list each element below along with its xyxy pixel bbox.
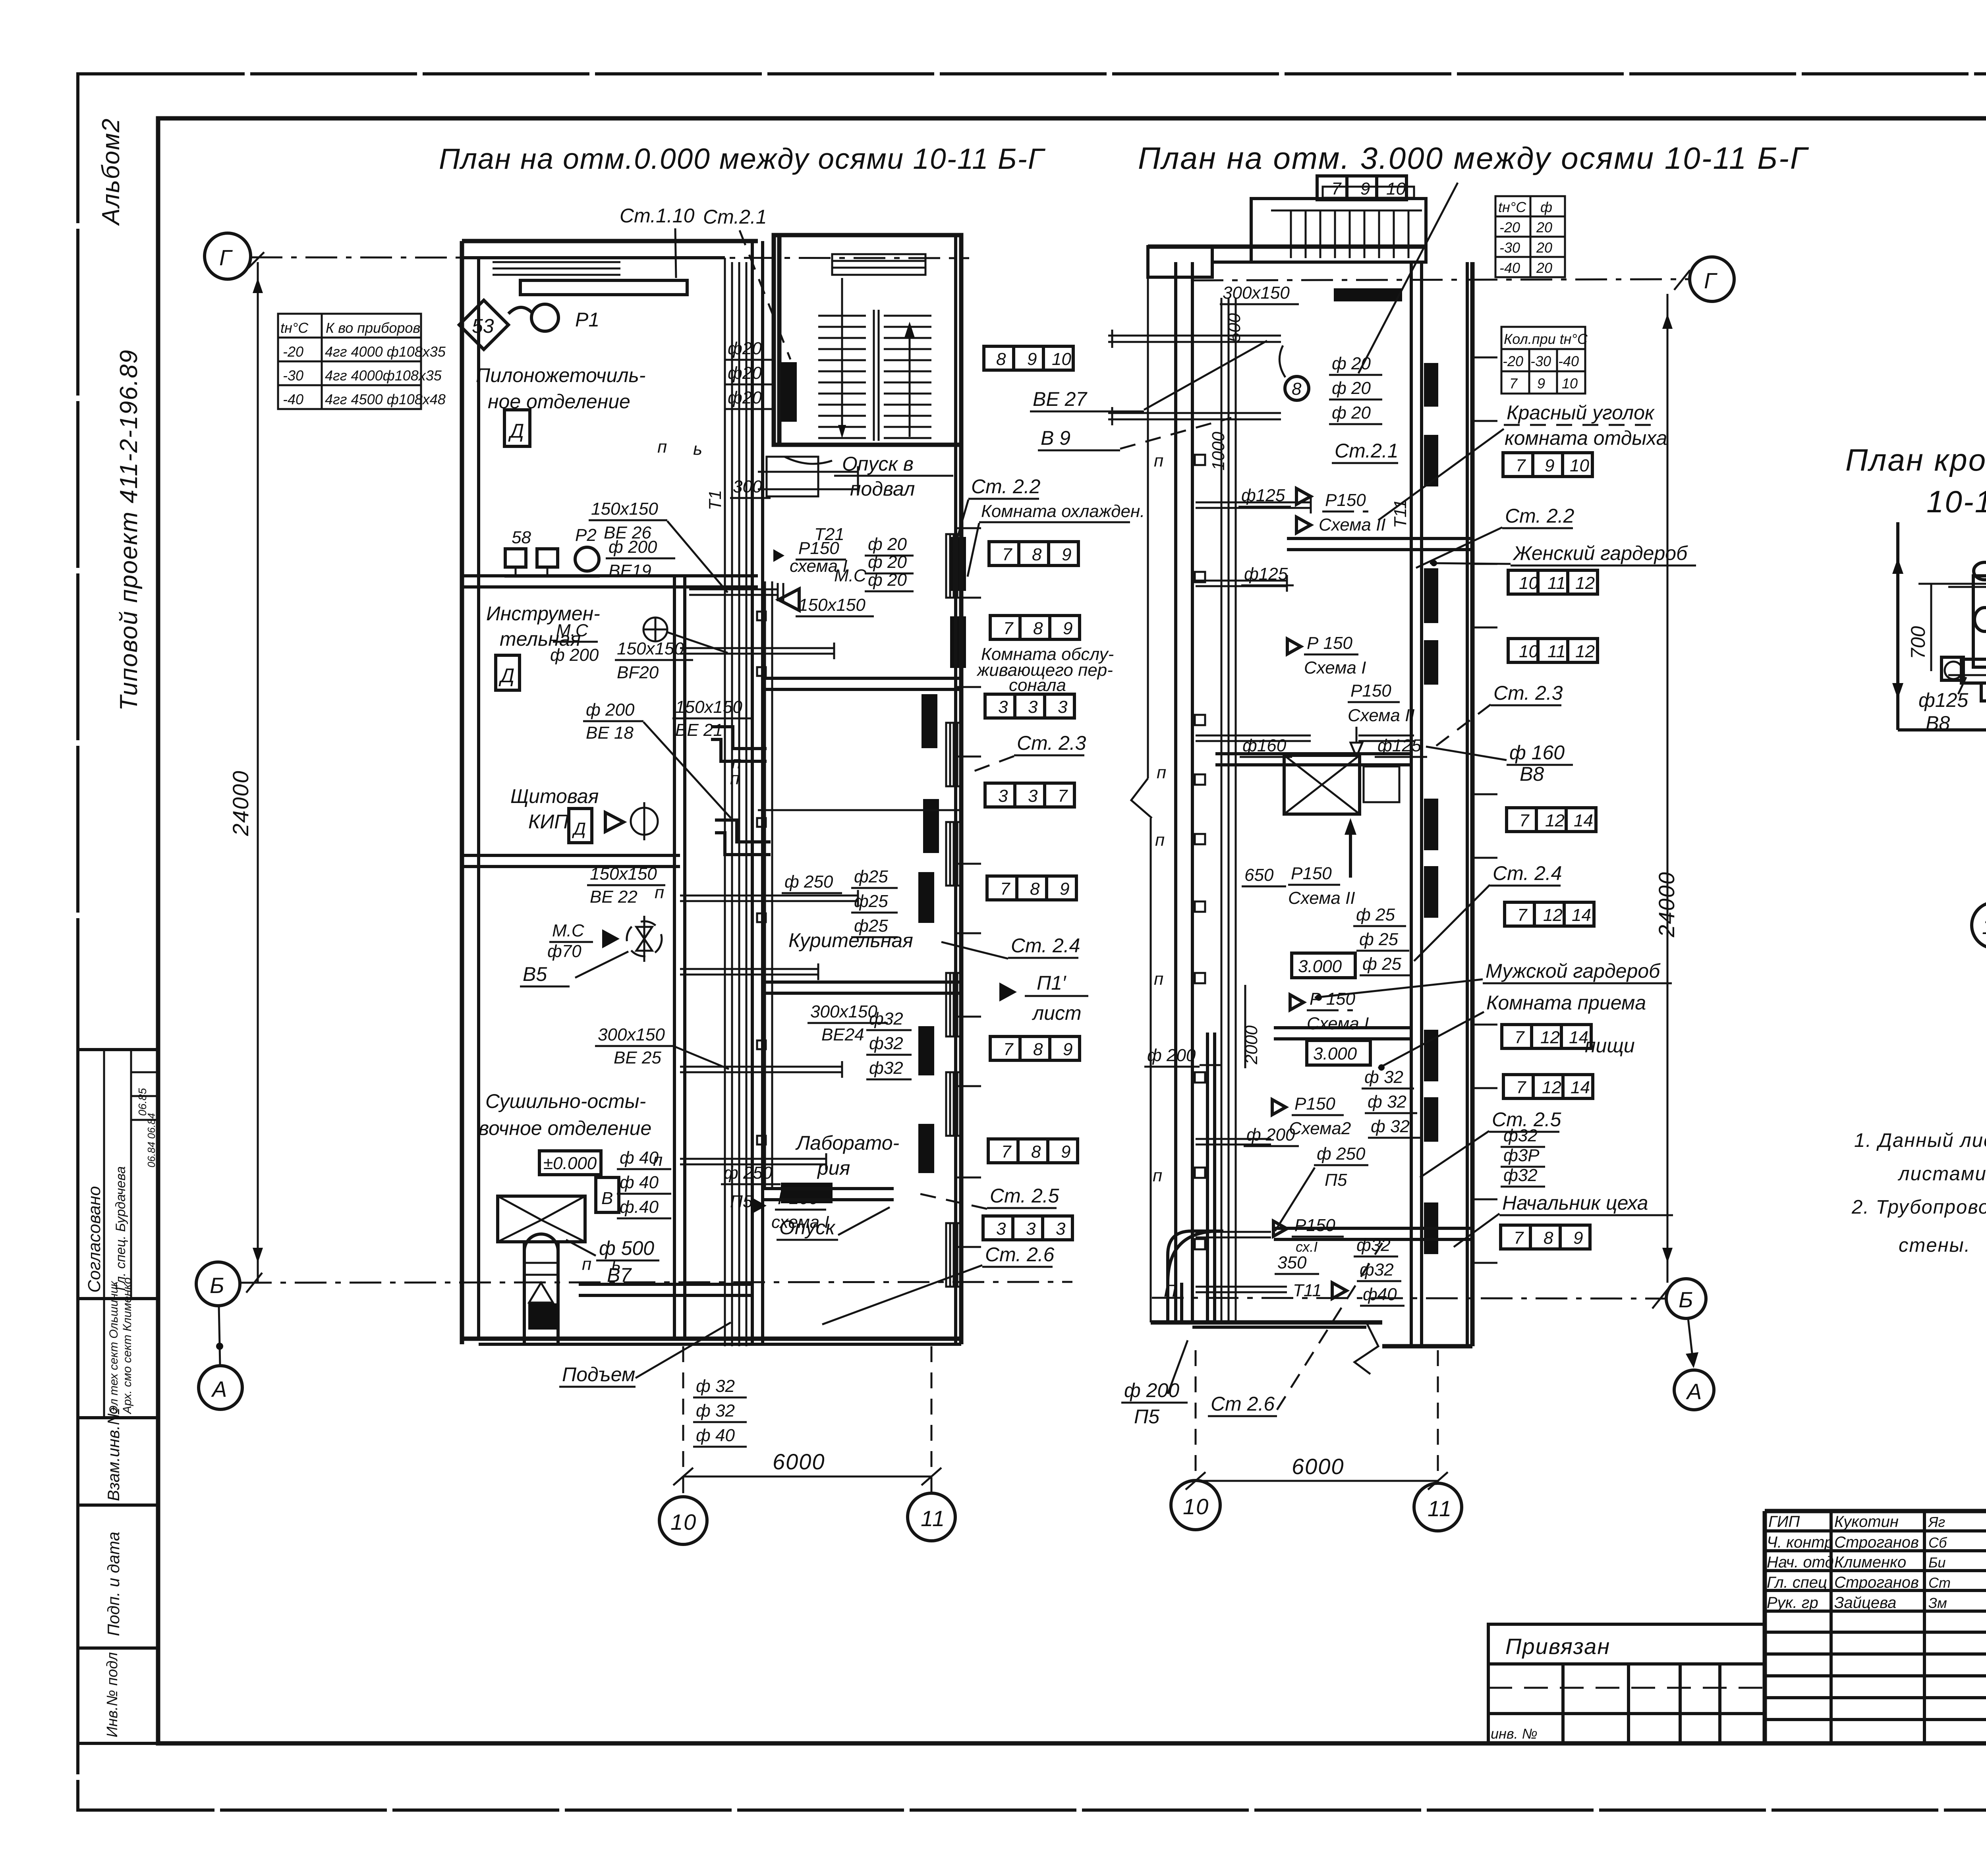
corridor duct bends [711,727,767,749]
box 7 9 10 [1503,453,1592,477]
svg-text:Опуск: Опуск [779,1216,836,1239]
svg-text:20: 20 [1536,219,1552,235]
partitions right rooms [763,677,961,680]
svg-text:Подъем: Подъем [562,1363,635,1386]
svg-text:ВЕ 27: ВЕ 27 [1033,388,1088,410]
axis circle 11 [1414,1483,1462,1531]
elbow pipes bottom left [1168,1231,1223,1255]
svg-text:Арх. смо сект Клименко: Арх. смо сект Клименко [121,1278,134,1415]
svg-text:10-11 Б-Г: 10-11 Б-Г [1926,484,1986,519]
svg-text:Б: Б [210,1273,225,1298]
svg-text:стены.: стены. [1899,1235,1971,1256]
svg-text:ф32: ф32 [1503,1166,1538,1185]
svg-text:3.000: 3.000 [1298,957,1342,976]
bottom wall [462,1337,961,1341]
svg-text:Кол.при tн°С: Кол.при tн°С [1504,331,1588,347]
box 8 9 10 [984,346,1073,370]
axis circle 10 [659,1497,707,1544]
svg-text:Д: Д [508,420,524,442]
privyazan table [1488,1624,1765,1743]
svg-text:150х150: 150х150 [798,595,865,615]
svg-text:ф160: ф160 [1242,736,1287,755]
svg-text:Сб: Сб [1928,1534,1947,1551]
vertical dimension line 24000 [257,262,259,1282]
svg-text:ф32: ф32 [869,1058,903,1078]
svg-text:Щитовая: Щитовая [510,785,599,807]
svg-text:ф 500: ф 500 [599,1237,654,1259]
svg-text:150х150: 150х150 [590,864,657,884]
svg-text:300: 300 [733,477,762,496]
box 789 [1501,1225,1590,1249]
svg-text:700: 700 [1907,626,1929,659]
svg-text:ф 32: ф 32 [1364,1067,1403,1087]
svg-text:Р150: Р150 [798,538,839,558]
duct stubs corridor [680,466,858,1170]
axis Г circle [205,233,251,279]
svg-text:ф 25: ф 25 [1359,930,1398,949]
svg-text:К во приборов: К во приборов [326,320,420,336]
svg-text:ф32: ф32 [1356,1235,1391,1255]
svg-text:ВЕ 18: ВЕ 18 [586,723,634,743]
svg-text:Т1: Т1 [705,490,725,510]
svg-text:Ст. 2.4: Ст. 2.4 [1493,862,1562,884]
svg-text:Подп. и дата: Подп. и дата [104,1532,123,1636]
V box [596,1177,619,1212]
svg-text:А: А [1686,1379,1702,1404]
0.000 box [539,1151,601,1175]
svg-text:-30: -30 [1499,239,1520,256]
svg-text:подвал: подвал [850,478,915,500]
svg-text:ВЕ 26: ВЕ 26 [604,523,651,542]
svg-text:Начальник цеха: Начальник цеха [1502,1192,1648,1214]
svg-text:ф 250: ф 250 [784,872,833,892]
svg-text:Г: Г [219,245,233,270]
svg-text:ф 200: ф 200 [1246,1125,1295,1145]
svg-text:Р150: Р150 [1291,864,1332,883]
duct box upper [767,457,818,496]
black bar bottom [781,1183,833,1203]
stair-lower wall [777,235,782,445]
svg-text:Пилоножеточиль-: Пилоножеточиль- [476,364,645,386]
svg-text:Схема2: Схема2 [1289,1119,1351,1138]
svg-text:А: А [211,1376,228,1401]
svg-text:1000: 1000 [1209,432,1228,471]
svg-text:Р150: Р150 [1294,1094,1335,1114]
svg-text:В8: В8 [1926,712,1950,734]
svg-text:-40: -40 [1558,353,1579,369]
svg-text:-40: -40 [283,391,303,407]
bottom walls [1151,1320,1382,1325]
svg-text:Эл тех сект Ольшиник: Эл тех сект Ольшиник [107,1280,120,1414]
boxes 789 789 [990,1036,1080,1060]
axis Г dash-dot line [251,257,969,258]
svg-text:4гг 4000 ф108х35: 4гг 4000 ф108х35 [325,344,446,360]
duct stubs from left [1108,330,1281,425]
svg-text:ВЕ 21: ВЕ 21 [675,720,723,740]
axis Б dash-dot line [240,1282,1072,1283]
svg-text:сх.I: сх.I [1296,1239,1318,1255]
svg-text:Р150: Р150 [1350,681,1391,701]
svg-text:ф 20: ф 20 [1332,378,1371,398]
svg-text:ф 40: ф 40 [620,1173,659,1192]
svg-text:6000: 6000 [1292,1454,1345,1479]
svg-text:П5: П5 [1134,1405,1159,1428]
svg-text:Ст 2.6: Ст 2.6 [1211,1393,1275,1415]
svg-text:рия: рия [817,1157,850,1179]
left break edge [1147,254,1149,778]
svg-text:План кровли между осями: План кровли между осями [1845,442,1986,477]
svg-text:ф125: ф125 [1918,689,1968,711]
svg-text:п: п [1153,1166,1162,1185]
axis А circle [199,1366,242,1409]
pipe bundle [724,258,726,1346]
svg-text:п: п [657,437,667,457]
svg-text:Ст.1.10: Ст.1.10 [620,205,695,227]
svg-text:ь: ь [612,1255,621,1274]
svg-text:-20: -20 [283,344,303,360]
svg-text:сонала: сонала [1009,676,1066,695]
svg-text:ф20: ф20 [728,339,762,358]
svg-text:650: 650 [1244,865,1274,885]
53 diamond [459,300,508,349]
box 333 [983,1216,1072,1240]
svg-text:ф125: ф125 [1241,486,1285,505]
radiators [1424,363,1438,407]
duct stubs interior [1196,497,1414,1292]
lower partition wall [579,1283,752,1286]
svg-text:ф.40: ф.40 [620,1197,659,1217]
svg-text:1. Данный лист рассматривать: 1. Данный лист рассматривать совместно с [1854,1130,1986,1151]
3.000 box 1 [1292,953,1355,978]
roof plan drawing [1892,510,1986,948]
svg-text:ф 20: ф 20 [1332,354,1371,373]
svg-text:пищи: пищи [1585,1035,1635,1057]
svg-text:Г: Г [1704,268,1717,293]
left wall [460,241,464,1344]
svg-text:Рук. гр: Рук. гр [1767,1594,1818,1612]
svg-text:В 9: В 9 [1041,427,1070,449]
svg-text:Зайцева: Зайцева [1834,1594,1896,1612]
leader from title [1358,183,1458,373]
3.000 box 2 [1307,1040,1370,1065]
signature table [1830,1511,1833,1743]
svg-text:ф 200: ф 200 [1147,1046,1196,1065]
pipe bundle [1221,298,1223,1322]
svg-text:-20: -20 [1503,353,1523,369]
svg-text:Схема II: Схема II [1319,515,1386,535]
svg-text:3.000: 3.000 [1313,1044,1357,1063]
svg-text:п: п [653,1150,663,1170]
svg-text:Р150: Р150 [1294,1216,1335,1235]
svg-text:Ст. 2.6: Ст. 2.6 [985,1243,1055,1266]
svg-text:4гг 4500 ф108х48: 4гг 4500 ф108х48 [325,391,446,407]
svg-text:Би: Би [1928,1554,1945,1571]
svg-text:300х150: 300х150 [810,1002,877,1021]
svg-text:ф25: ф25 [854,892,888,911]
svg-text:Комната охлажден.: Комната охлажден. [981,502,1145,521]
svg-text:Инв.№ подл: Инв.№ подл [104,1652,121,1737]
svg-text:101112: 101112 [1519,573,1595,593]
svg-text:п: п [655,883,664,902]
svg-text:10: 10 [1562,375,1578,392]
partition 2 [462,854,680,857]
svg-text:Схема II: Схема II [1288,888,1355,908]
bottom chimney [498,1196,585,1242]
svg-text:Строганов: Строганов [1834,1534,1919,1551]
svg-text:ф32: ф32 [1503,1126,1538,1145]
svg-text:-40: -40 [1499,260,1520,276]
svg-text:11: 11 [921,1506,945,1531]
svg-text:ф 32: ф 32 [1368,1092,1406,1112]
svg-text:ф32: ф32 [869,1034,903,1053]
svg-text:Привязан: Привязан [1505,1634,1610,1659]
svg-text:P1: P1 [575,309,599,331]
axis circle 10 [1171,1480,1220,1530]
svg-text:План на отм. 3.000 между осями: План на отм. 3.000 между осями 10-11 Б-Г [1138,141,1809,176]
svg-text:ф20: ф20 [728,363,762,383]
main outline [1765,1509,1986,1513]
svg-text:Сушильно-осты-: Сушильно-осты- [485,1090,646,1112]
svg-text:±0.000: ±0.000 [543,1154,597,1173]
temp table right [1495,196,1565,277]
svg-text:ВЕ 25: ВЕ 25 [614,1048,661,1067]
svg-text:101112: 101112 [1519,642,1595,661]
svg-text:Ст.2.1: Ст.2.1 [703,206,767,228]
corridor wall [751,241,754,1344]
svg-text:ф 250: ф 250 [1317,1144,1366,1164]
svg-text:20: 20 [1536,239,1552,256]
arrow to A [1688,1318,1693,1360]
svg-text:ВЕ19: ВЕ19 [609,561,651,581]
svg-text:53: 53 [472,315,494,337]
svg-text:Кукотин: Кукотин [1834,1513,1899,1531]
stair enclosure [774,235,961,445]
svg-text:24000: 24000 [228,770,253,836]
axis circle 11 [908,1493,955,1541]
svg-text:Ст.2.1: Ст.2.1 [1335,440,1399,462]
svg-text:Р 150: Р 150 [1307,633,1353,653]
svg-text:ВЕ24: ВЕ24 [821,1025,864,1044]
svg-text:Д: Д [572,819,586,839]
svg-text:Гл. спец. Бурдачева: Гл. спец. Бурдачева [113,1166,128,1291]
svg-text:Согласовано: Согласовано [85,1186,104,1293]
svg-text:Ст. 2.4: Ст. 2.4 [1011,934,1080,957]
svg-text:п: п [1154,451,1163,471]
svg-text:п: п [1157,763,1166,782]
svg-text:Женский гардероб: Женский гардероб [1512,542,1688,564]
svg-text:350: 350 [1277,1253,1307,1272]
black bar top [1334,288,1402,301]
svg-text:ф 32: ф 32 [696,1401,735,1421]
svg-text:листами 1,2,3,4,6,15.: листами 1,2,3,4,6,15. [1897,1163,1986,1185]
svg-text:лист: лист [1032,1002,1082,1024]
right wall [954,235,957,1344]
svg-text:Красный уголок: Красный уголок [1507,401,1655,424]
svg-text:ф 25: ф 25 [1356,905,1395,924]
svg-text:Ст. 2.2: Ст. 2.2 [971,475,1041,498]
svg-text:Ч. контр: Ч. контр [1767,1534,1833,1551]
svg-text:ф 20: ф 20 [868,552,907,572]
svg-text:ф70: ф70 [547,942,582,961]
top wall [1148,245,1426,249]
svg-text:п: п [1154,969,1163,989]
boxes 789 789 [989,542,1078,566]
svg-text:ф: ф [1540,199,1552,215]
window ticks right wall [956,528,981,1247]
svg-text:инв. №: инв. № [1491,1725,1538,1742]
svg-text:П1′: П1′ [1037,972,1066,994]
svg-text:ф 20: ф 20 [868,535,907,554]
stair top block [1251,199,1426,262]
top wall [462,239,758,243]
boxes 10 11 12 [1508,570,1598,594]
svg-text:ф 25: ф 25 [1362,954,1401,974]
svg-text:06.84 06.84: 06.84 06.84 [145,1113,157,1168]
svg-text:П5: П5 [1325,1170,1347,1190]
P1 [531,304,558,331]
axis circles [1972,902,1986,948]
title block [1488,1511,1986,1801]
svg-text:ф 250: ф 250 [724,1163,773,1183]
svg-text:В5: В5 [523,963,547,985]
svg-text:ф 20: ф 20 [868,570,907,590]
svg-text:Ст. 2.5: Ст. 2.5 [990,1185,1059,1207]
svg-text:06.85: 06.85 [136,1088,149,1116]
svg-text:500: 500 [1225,313,1244,342]
window bar top [493,261,620,263]
svg-text:8: 8 [1292,379,1302,399]
kol pri table [1501,327,1588,394]
svg-text:Схема II: Схема II [1348,706,1415,725]
svg-text:Ст: Ст [1928,1575,1951,1591]
svg-text:Гл. спец: Гл. спец [1767,1574,1827,1591]
corridor vert wall [673,576,676,1339]
svg-text:58: 58 [512,528,531,547]
window hatches right wall [946,534,961,598]
svg-text:Альбом2: Альбом2 [97,118,125,226]
svg-text:М.С: М.С [556,621,589,640]
connector Б-А [219,1306,220,1366]
svg-text:-30: -30 [283,367,303,384]
svg-text:11: 11 [1428,1496,1452,1521]
svg-text:П5: П5 [730,1192,753,1211]
svg-text:10: 10 [1183,1494,1209,1519]
svg-text:7: 7 [1509,375,1518,392]
box 7 9 10 under title 2 [1317,176,1406,200]
svg-text:Ст. 2.2: Ст. 2.2 [1505,505,1575,527]
svg-text:п: п [582,1255,591,1274]
inner border frame [158,118,1986,1743]
svg-text:Яг: Яг [1928,1514,1945,1530]
svg-text:Схема I: Схема I [1307,1014,1369,1033]
svg-text:10: 10 [670,1509,697,1534]
riser f200 [1206,1033,1209,1322]
svg-text:Курительная: Курительная [788,929,913,952]
svg-text:ВЕ 22: ВЕ 22 [590,887,638,907]
svg-text:Лаборато-: Лаборато- [795,1132,899,1154]
D box [504,410,530,446]
left stamp table [78,1050,158,1743]
svg-text:10: 10 [1982,914,1986,939]
svg-text:ь: ь [693,439,702,459]
svg-text:Б: Б [1679,1287,1694,1312]
right wall [1466,262,1469,1346]
svg-text:ф 200: ф 200 [586,700,635,720]
svg-text:ф125: ф125 [1377,736,1422,755]
svg-text:ф 32: ф 32 [696,1376,735,1396]
svg-text:ф 20: ф 20 [1332,403,1371,423]
tick [248,252,264,268]
svg-text:Типовой проект 411-2-196.89: Типовой проект 411-2-196.89 [115,349,143,711]
svg-text:300х150: 300х150 [598,1025,665,1044]
svg-text:М.С: М.С [552,921,585,940]
svg-text:300х150: 300х150 [1223,283,1290,303]
svg-text:ф20: ф20 [728,388,762,407]
svg-text:КИП: КИП [528,811,569,833]
svg-text:20: 20 [1536,260,1552,276]
svg-text:Д: Д [498,664,514,687]
svg-text:Взам.инв.№: Взам.инв.№ [104,1407,123,1501]
svg-text:План на отм.0.000 между осями: План на отм.0.000 между осями 10-11 Б-Г [439,143,1046,175]
top-left tab [1148,247,1212,277]
svg-text:ф 200: ф 200 [550,645,599,665]
interior vert wall T11 [1410,262,1413,1346]
svg-text:150х150: 150х150 [591,499,658,519]
vertical dim line left [1896,522,1899,730]
svg-text:ГИП: ГИП [1768,1513,1800,1531]
svg-text:4гг 4000ф108х35: 4гг 4000ф108х35 [325,367,442,384]
X crossing box [1284,755,1360,814]
partition 1 [462,574,758,577]
svg-text:Р2: Р2 [575,525,597,545]
radiator R stair [781,362,797,422]
svg-text:ф 32: ф 32 [1371,1117,1410,1136]
svg-text:ВF20: ВF20 [617,663,659,682]
svg-text:Мужской гардероб: Мужской гардероб [1486,960,1661,982]
svg-text:tн°С: tн°С [280,320,309,336]
dim 6000 [1195,1350,1197,1481]
svg-text:ф25: ф25 [854,867,888,886]
svg-text:Нач. отд: Нач. отд [1767,1554,1834,1571]
svg-text:ф32: ф32 [869,1009,903,1029]
svg-text:Клименко: Клименко [1834,1554,1906,1571]
pilaster marks [1195,455,1205,1249]
svg-text:Р150: Р150 [1325,490,1366,510]
temp table left [278,314,446,409]
left wall double [1174,262,1177,1322]
radiators right wall upper [950,537,966,591]
radiators mid [922,694,937,748]
8 circle [1285,376,1309,400]
window ticks right [1472,357,1497,1263]
svg-text:ф40: ф40 [1363,1285,1397,1304]
svg-text:В: В [601,1189,613,1208]
svg-text:М.С: М.С [834,566,867,585]
svg-text:п: п [730,769,740,788]
svg-text:вочное отделение: вочное отделение [479,1117,651,1139]
dim 6000 [682,1346,684,1497]
partitions [1287,537,1472,540]
svg-text:2. Трубопроводы на планах у: 2. Трубопроводы на планах условно отнесе… [1851,1197,1986,1218]
boxes 7 12 14 [1507,808,1596,832]
svg-text:Ст. 2.3: Ст. 2.3 [1493,682,1563,704]
svg-text:Строганов: Строганов [1834,1574,1919,1591]
svg-text:tн°С: tн°С [1498,199,1526,215]
axis B circle [1666,1279,1706,1318]
vent unit [1948,586,1986,588]
axis Б circle [196,1262,240,1306]
handrail [832,254,925,275]
